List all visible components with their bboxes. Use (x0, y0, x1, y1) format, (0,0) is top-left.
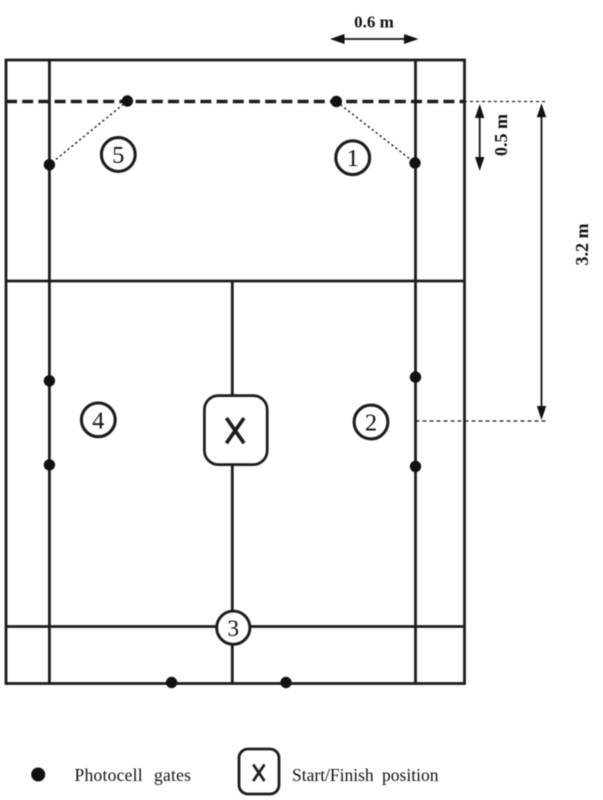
photocell dot on net line left (122, 95, 133, 106)
3.2 m dimension arrow (541, 113, 543, 410)
svg-text:Photocell gates: Photocell gates (75, 765, 192, 785)
station circle 4 (81, 403, 115, 437)
net dashed line (6, 100, 464, 103)
0.5 m dimension arrow (479, 114, 481, 161)
station circle 2 (354, 405, 388, 439)
svg-text:2: 2 (365, 410, 377, 437)
svg-text:Start/Finish position: Start/Finish position (292, 765, 439, 785)
right sideline (414, 60, 417, 684)
svg-text:0.5 m: 0.5 m (491, 114, 511, 156)
station circle 1 (336, 141, 370, 175)
legend start/finish box (239, 749, 279, 794)
dotted extension of net line (464, 101, 546, 103)
photocell dot left sideline upper (44, 159, 55, 170)
photocell dot right sideline mid-lower (410, 461, 421, 472)
svg-text:4: 4 (92, 407, 104, 434)
dotted level line at arrow bottom (416, 420, 547, 422)
svg-text:0.6 m: 0.6 m (354, 13, 394, 32)
0.6 m dimension arrow (341, 38, 408, 40)
svg-text:3: 3 (227, 616, 239, 642)
court outer boundary (6, 60, 465, 684)
svg-text:3.2 m: 3.2 m (572, 224, 592, 266)
dotted guide from gate 1 dot to right sideline dot (336, 102, 415, 164)
svg-text:1: 1 (347, 145, 359, 172)
left sideline (48, 60, 51, 684)
start/finish box X (204, 396, 267, 465)
legend photocell dot (31, 768, 45, 782)
centre line (231, 281, 234, 684)
photocell dot baseline left (166, 677, 177, 688)
dotted guide from gate 5 dot to left sideline dot (49, 101, 127, 165)
station circle 3 (217, 611, 250, 644)
photocell dot left sideline mid-lower (44, 459, 55, 470)
svg-text:5: 5 (112, 142, 124, 169)
short service line (6, 280, 465, 283)
photocell dot right sideline mid-upper (410, 371, 421, 382)
photocell dot left sideline mid-upper (44, 375, 55, 386)
photocell dot right sideline upper (409, 157, 420, 168)
doubles long service line (6, 625, 465, 628)
station circle 5 (101, 138, 135, 172)
photocell dot on net line right (331, 96, 342, 107)
photocell dot baseline right (280, 677, 291, 688)
